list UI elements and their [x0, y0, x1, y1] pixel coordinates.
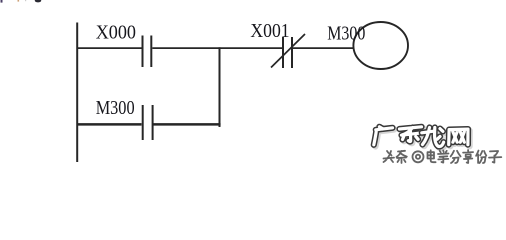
svg-text:M300: M300	[327, 23, 365, 45]
svg-text:X001: X001	[250, 20, 289, 42]
svg-text:X000: X000	[96, 22, 136, 44]
svg-text:M300: M300	[96, 97, 135, 119]
